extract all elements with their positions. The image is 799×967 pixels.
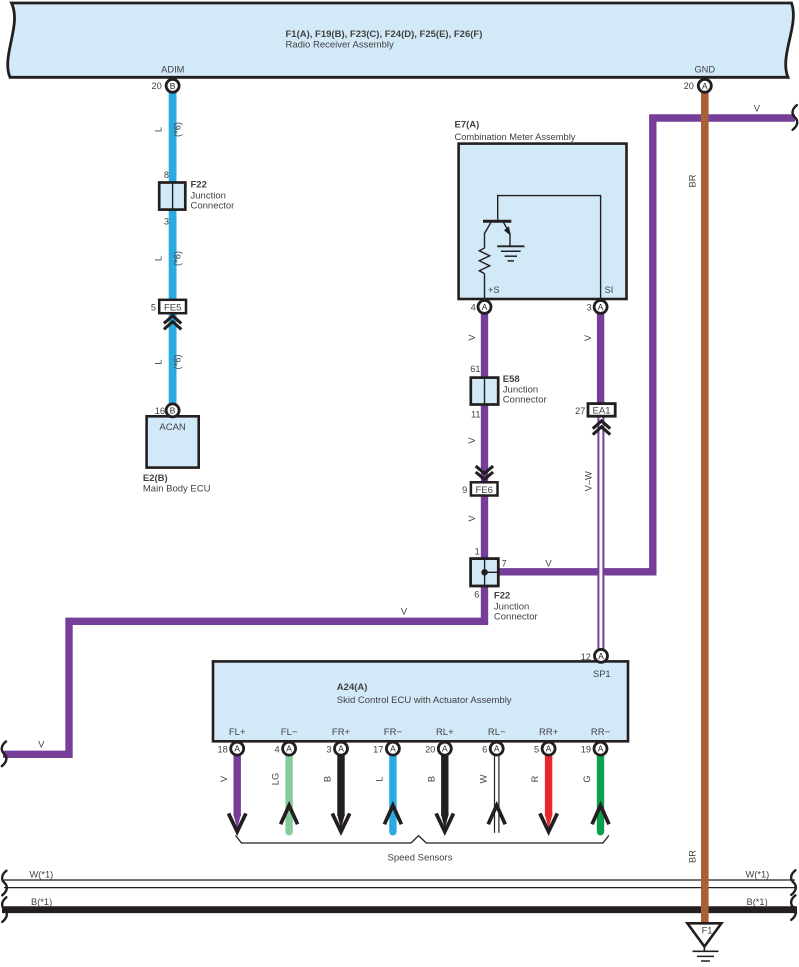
- svg-text:4: 4: [274, 744, 279, 754]
- svg-text:F1: F1: [702, 926, 713, 936]
- resistor lead to +S pin: [484, 274, 486, 299]
- svg-text:Skid Control ECU with Actuator: Skid Control ECU with Actuator Assembly: [337, 695, 512, 706]
- svg-text:A: A: [598, 744, 604, 754]
- wire W(*1) bus: [4, 880, 795, 888]
- svg-text:L: L: [154, 127, 164, 132]
- svg-text:V: V: [467, 515, 477, 522]
- label E58 junction connector: [503, 374, 547, 406]
- svg-text:1: 1: [475, 546, 480, 556]
- wire V from F22 junction pin 6 to left edge: [3, 584, 485, 754]
- wire L to speed sensor (FR-, up arrow): [375, 756, 402, 832]
- break symbol W right: [791, 870, 796, 895]
- pin 16 (B) ACAN: [155, 404, 179, 417]
- wire LG to speed sensor (FL-, up arrow): [271, 756, 298, 832]
- svg-text:V: V: [754, 104, 761, 114]
- wire V-W from EA1 to SP1 pin 12: [598, 416, 603, 650]
- transistor Q (NPN) base bar: [483, 220, 511, 223]
- wire V to speed sensor (FL+, down arrow): [219, 756, 246, 832]
- svg-text:V: V: [401, 606, 408, 616]
- svg-text:V–W: V–W: [583, 471, 593, 491]
- label: Radio Receiver Assembly title: [286, 29, 483, 51]
- junction connector F22 (top): [159, 183, 185, 210]
- svg-text:V: V: [467, 334, 477, 341]
- svg-text:7: 7: [502, 558, 507, 568]
- svg-text:A: A: [234, 744, 240, 754]
- svg-text:B: B: [170, 81, 176, 91]
- label E2(B) Main Body ECU: [143, 473, 211, 495]
- pin 3 (A) FR+: [326, 742, 347, 755]
- svg-text:6: 6: [474, 589, 479, 599]
- svg-text:W(*1): W(*1): [30, 869, 54, 879]
- pin 18 (A) FL+: [217, 742, 243, 755]
- connector FE5: [159, 300, 186, 314]
- svg-text:12: 12: [581, 652, 591, 662]
- svg-text:G: G: [582, 775, 592, 782]
- svg-text:A: A: [338, 744, 344, 754]
- break symbol B left: [2, 897, 7, 922]
- svg-text:BR: BR: [687, 850, 697, 863]
- svg-text:27: 27: [575, 406, 585, 416]
- svg-text:ACAN: ACAN: [159, 422, 186, 433]
- in-line connector marker below EA1: [593, 421, 610, 435]
- transistor collector lead: [485, 223, 491, 249]
- break symbol V right edge: [793, 105, 798, 130]
- wire BR from GND pin 20 to ground F1: [701, 93, 709, 923]
- svg-text:3: 3: [326, 744, 331, 754]
- svg-text:B(*1): B(*1): [747, 897, 768, 907]
- break symbol B right: [791, 895, 796, 920]
- svg-text:A: A: [494, 744, 500, 754]
- break symbol V left edge: [2, 742, 7, 767]
- svg-text:Connector: Connector: [503, 395, 547, 406]
- wire L (cyan) ADIM pin 20 to ACAN pin 16: [169, 89, 177, 406]
- svg-text:E58: E58: [503, 374, 520, 385]
- svg-text:B(*1): B(*1): [31, 897, 52, 907]
- svg-text:16: 16: [155, 406, 165, 416]
- svg-text:Combination Meter Assembly: Combination Meter Assembly: [455, 132, 576, 142]
- svg-text:A: A: [598, 651, 604, 661]
- brace Speed Sensors: [236, 835, 609, 843]
- wire R to speed sensor (RR+, down arrow): [530, 756, 557, 832]
- svg-text:B: B: [426, 776, 436, 782]
- pin 3 (A) SI: [587, 300, 607, 313]
- svg-text:18: 18: [217, 744, 227, 754]
- svg-text:A: A: [598, 302, 604, 312]
- pin 20 (A) GND: [684, 79, 712, 92]
- svg-text:L: L: [154, 256, 164, 261]
- wire G to speed sensor (RR-, up arrow): [582, 756, 609, 832]
- svg-text:RL+: RL+: [436, 727, 454, 738]
- svg-text:LG: LG: [271, 773, 281, 785]
- svg-text:20: 20: [684, 81, 694, 91]
- svg-text:(*6): (*6): [173, 251, 183, 266]
- svg-text:R: R: [530, 775, 540, 782]
- connector EA1: [588, 404, 615, 417]
- svg-text:3: 3: [587, 303, 592, 313]
- internal ground symbol: [497, 246, 524, 261]
- junction connector E58: [471, 378, 498, 405]
- svg-text:F22: F22: [494, 591, 510, 602]
- svg-text:V: V: [545, 558, 552, 568]
- junction connector F22 (middle) with junction dot: [471, 559, 499, 586]
- svg-text:FE5: FE5: [164, 303, 181, 314]
- svg-text:L: L: [154, 359, 164, 364]
- svg-text:19: 19: [581, 744, 591, 754]
- svg-text:A24(A): A24(A): [337, 682, 368, 693]
- svg-text:E7(A): E7(A): [455, 120, 480, 131]
- svg-text:8: 8: [164, 170, 169, 180]
- svg-text:FR+: FR+: [332, 727, 351, 738]
- pin 20 (A) RL+: [425, 742, 451, 755]
- svg-text:B: B: [170, 406, 176, 416]
- svg-text:RR−: RR−: [591, 727, 611, 738]
- connector FE6: [471, 482, 498, 496]
- A24(A) Skid Control ECU box: [213, 661, 628, 741]
- svg-text:A: A: [482, 302, 488, 312]
- svg-text:V: V: [219, 775, 229, 782]
- wire W to speed sensor (RL-, up arrow): [478, 756, 505, 833]
- wire V loop: right edge to F22 junction pin 7: [497, 118, 795, 572]
- svg-text:A: A: [390, 744, 396, 754]
- wire B to speed sensor (RL+, down arrow): [426, 756, 453, 832]
- label F22 junction connector (middle): [494, 591, 538, 623]
- svg-text:9: 9: [462, 485, 467, 495]
- svg-text:4: 4: [471, 303, 476, 313]
- svg-text:A: A: [286, 744, 292, 754]
- svg-text:+S: +S: [488, 285, 500, 295]
- svg-text:Main Body ECU: Main Body ECU: [143, 484, 211, 495]
- svg-text:V: V: [38, 740, 45, 750]
- svg-text:FL−: FL−: [281, 727, 298, 738]
- label A24(A) Skid Control ECU: [337, 682, 512, 706]
- svg-text:F1(A), F19(B), F23(C), F24(D),: F1(A), F19(B), F23(C), F24(D), F25(E), F…: [286, 29, 483, 40]
- wire V from E7 SI pin 3 down to EA1: [597, 310, 604, 404]
- svg-text:A: A: [442, 744, 448, 754]
- in-line connector marker below FE5: [164, 316, 181, 330]
- pin 4 (A) +S: [471, 300, 491, 313]
- resistor R (to +S): [479, 248, 489, 274]
- svg-text:EA1: EA1: [593, 406, 611, 417]
- wire B(*1) bus: [2, 906, 797, 913]
- svg-text:17: 17: [373, 744, 383, 754]
- svg-text:Speed Sensors: Speed Sensors: [388, 853, 453, 864]
- svg-text:SP1: SP1: [593, 669, 611, 679]
- svg-text:B: B: [323, 776, 333, 782]
- label F22 junction connector (top): [191, 180, 235, 212]
- svg-text:A: A: [546, 744, 552, 754]
- svg-text:61: 61: [470, 364, 480, 374]
- E7(A) Combination Meter Assembly box: [459, 144, 627, 299]
- svg-text:FE6: FE6: [475, 485, 492, 496]
- pin 6 (A) RL-: [482, 742, 503, 755]
- svg-text:3: 3: [164, 216, 169, 226]
- svg-text:V: V: [583, 334, 593, 341]
- transistor emitter lead with arrow: [504, 223, 511, 247]
- pin 12 (A) SP1: [581, 649, 608, 662]
- svg-text:20: 20: [151, 81, 161, 91]
- svg-text:F22: F22: [191, 180, 207, 191]
- E2(B) Main Body ECU box ACAN: [147, 416, 199, 467]
- svg-text:V: V: [467, 437, 477, 444]
- svg-text:E2(B): E2(B): [143, 473, 168, 484]
- svg-text:SI: SI: [605, 285, 614, 295]
- svg-text:5: 5: [534, 744, 539, 754]
- svg-text:20: 20: [425, 744, 435, 754]
- svg-text:ADIM: ADIM: [161, 65, 184, 75]
- wire B to speed sensor (FR+, down arrow): [323, 756, 350, 832]
- wire V from E7 +S pin 4 down to F22 junction pin 1: [481, 310, 488, 584]
- svg-text:FL+: FL+: [229, 727, 246, 738]
- svg-text:GND: GND: [694, 65, 715, 75]
- pin 20 (B) ADIM: [151, 79, 179, 92]
- pin 5 (A) RR+: [534, 742, 555, 755]
- svg-text:Connector: Connector: [494, 611, 538, 622]
- svg-text:11: 11: [471, 409, 481, 419]
- svg-text:RL−: RL−: [488, 727, 506, 738]
- internal wire SI to transistor base: [498, 196, 601, 299]
- svg-text:RR+: RR+: [539, 727, 559, 738]
- pin 4 (A) FL-: [274, 742, 295, 755]
- svg-text:A: A: [702, 81, 708, 91]
- svg-text:Connector: Connector: [191, 201, 235, 212]
- svg-text:W: W: [478, 774, 488, 783]
- in-line connector marker above FE6: [476, 466, 493, 479]
- ground F1: [687, 923, 721, 961]
- svg-text:L: L: [375, 776, 385, 781]
- pin 17 (A) FR-: [373, 742, 399, 755]
- svg-text:5: 5: [151, 303, 156, 313]
- svg-text:6: 6: [482, 744, 487, 754]
- break symbol W left: [2, 871, 7, 896]
- svg-text:BR: BR: [687, 174, 697, 187]
- svg-text:(*6): (*6): [173, 122, 183, 137]
- svg-text:Radio Receiver Assembly: Radio Receiver Assembly: [286, 40, 394, 51]
- label E7(A): [455, 120, 576, 143]
- pin 19 (A) RR-: [581, 742, 607, 755]
- svg-text:FR−: FR−: [384, 727, 403, 738]
- svg-text:(*6): (*6): [173, 355, 183, 370]
- connector bar F1(A)/F19(B)/F23(C)/F24(D)/F25(E)/F26(F) Radio Receiver Assembly: [8, 3, 794, 77]
- svg-text:W(*1): W(*1): [746, 869, 770, 879]
